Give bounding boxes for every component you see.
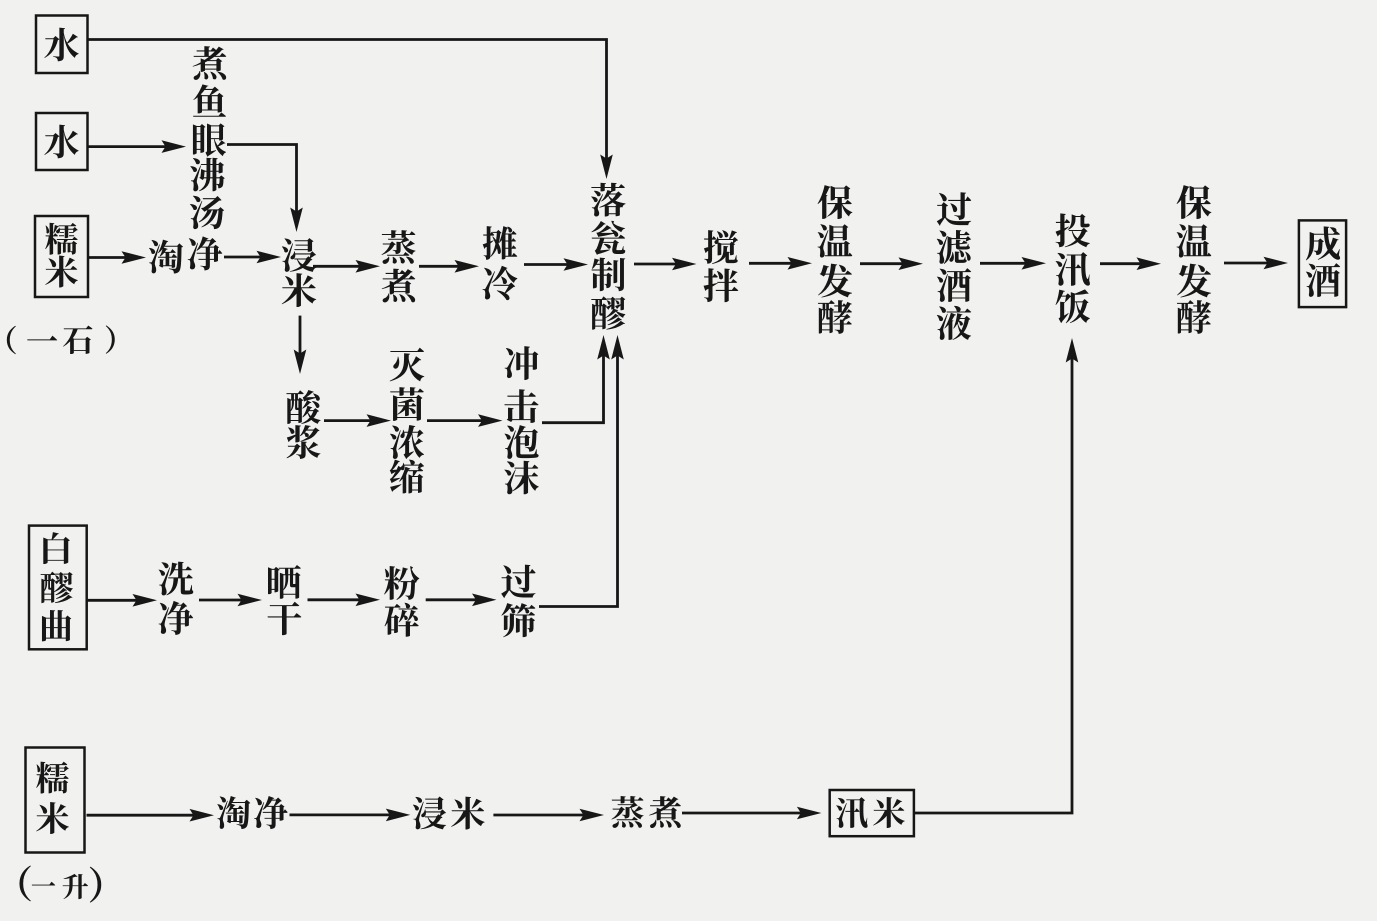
label 过 <box>501 565 535 599</box>
box white-lao-qu <box>29 526 87 650</box>
label 净 <box>188 236 222 270</box>
label 冲 <box>505 346 539 380</box>
label 蒸 <box>611 796 643 828</box>
label 米 <box>282 273 317 307</box>
label 酸 <box>286 390 320 424</box>
label 成 <box>1306 226 1340 260</box>
arrow sterilize-concentrate to strike-foam <box>427 414 503 427</box>
arrow stir to keep-warm-ferment#1 <box>749 257 812 270</box>
arrow rinse-clean to soak-rice (bottom) <box>290 809 411 822</box>
label 饭 <box>1056 289 1090 323</box>
label 晒 <box>268 565 301 599</box>
label 过 <box>937 192 971 226</box>
label 粉 <box>384 566 419 600</box>
label 瓮 <box>591 221 625 255</box>
label 温 <box>1177 224 1212 257</box>
arrow rice#1 to rinse-clean <box>88 251 146 264</box>
label 液 <box>937 306 971 340</box>
label 净 <box>159 601 193 635</box>
box finished-wine <box>1299 220 1346 307</box>
arrow sour-mash to sterilize-concentrate <box>324 414 391 427</box>
label 沸 <box>190 158 225 192</box>
arrow steam to spread-cool <box>419 260 479 273</box>
label ） <box>90 867 101 903</box>
arrow filter-liquor to add-xun-fan <box>980 257 1046 270</box>
label 升 <box>63 874 88 899</box>
arrow rice#2 to rinse-clean (bottom) <box>87 809 215 822</box>
arrow soak-rice down to sour-mash <box>294 316 307 374</box>
label 筛 <box>501 603 535 637</box>
label 浆 <box>287 425 321 459</box>
label 糯 <box>45 223 78 255</box>
label （ <box>19 865 30 901</box>
label 淘 <box>217 796 250 829</box>
label 保 <box>818 185 853 219</box>
label 汛 <box>836 797 868 828</box>
label 缩 <box>390 460 424 494</box>
label 淘 <box>149 240 183 274</box>
box glutinous-rice (one dan) <box>35 216 88 297</box>
arrow wash-clean to sun-dry <box>199 594 262 607</box>
label 汛 <box>1056 252 1090 286</box>
label 一 <box>32 882 55 886</box>
label 摊 <box>483 226 518 260</box>
label 洗 <box>159 562 194 596</box>
label 煮 <box>649 796 681 828</box>
label 碎 <box>385 603 419 637</box>
label 制 <box>591 258 625 292</box>
label 泡 <box>504 425 538 459</box>
box glutinous-rice (one sheng) <box>26 748 85 853</box>
arrow luo-weng-zhi-lao to stir <box>634 258 697 271</box>
label 酒 <box>937 268 971 302</box>
arrow rinse-clean to soak-rice <box>224 251 281 264</box>
label 浸 <box>413 797 446 830</box>
label 冷 <box>483 266 518 300</box>
label 滤 <box>937 230 971 264</box>
label 灭 <box>390 348 425 382</box>
label 投 <box>1056 213 1090 247</box>
arrow keep-warm-ferment#1 to filter-liquor <box>860 257 923 270</box>
arrow steam to xun-mi (bottom) <box>682 807 821 820</box>
label 发 <box>1177 264 1211 298</box>
arrow sun-dry to crush <box>308 594 381 607</box>
label 米 <box>873 797 905 828</box>
label 米 <box>45 256 78 288</box>
label 发 <box>818 264 852 298</box>
wire water#1 to luo-weng-zhi-lao (top route) <box>88 40 613 180</box>
label 酒 <box>1306 263 1340 297</box>
label 浓 <box>390 425 424 459</box>
label 浸 <box>282 238 316 272</box>
arrow soak-rice to steam (bottom) <box>493 809 604 822</box>
label 一 <box>27 336 57 341</box>
label 落 <box>591 183 625 217</box>
label 保 <box>1177 185 1212 219</box>
box water #1 <box>36 16 88 74</box>
label 曲 <box>42 610 71 641</box>
label （ <box>7 326 16 354</box>
label 汤 <box>190 196 224 229</box>
box xun-mi <box>830 790 914 836</box>
label 搅 <box>704 230 738 264</box>
label 醪 <box>591 296 625 329</box>
label 糯 <box>36 762 69 794</box>
label 水 <box>44 28 78 62</box>
arrow spread-cool to luo-weng-zhi-lao <box>524 258 588 271</box>
arrow white-lao-qu to wash-clean <box>87 594 157 607</box>
label 醪 <box>41 572 73 603</box>
wire sieve up to luo-weng-zhi-lao <box>539 335 624 607</box>
label 米 <box>36 802 69 834</box>
label 水 <box>44 125 78 159</box>
label 煮 <box>382 269 416 303</box>
wire fisheye-soup to soak-rice <box>227 145 303 233</box>
label 煮 <box>193 46 227 80</box>
arrow soak-rice to steam <box>313 260 380 273</box>
label 菌 <box>390 387 424 421</box>
wire xun-mi up to add-xun-fan <box>914 338 1078 813</box>
label 鱼 <box>193 84 226 116</box>
arrow keep-warm-ferment#2 to finished-wine <box>1224 257 1288 270</box>
label 干 <box>268 602 302 635</box>
label 酵 <box>818 300 852 334</box>
label ） <box>106 325 115 353</box>
arrow water#2 to boil-fisheye-soup <box>88 140 187 153</box>
label 蒸 <box>382 230 416 264</box>
label 击 <box>504 389 538 423</box>
label 净 <box>254 796 288 829</box>
arrow crush to sieve <box>426 594 497 607</box>
label 米 <box>451 797 485 830</box>
label 酵 <box>1177 300 1211 334</box>
wire strike-foam up to luo-weng-zhi-lao <box>542 335 610 423</box>
label 温 <box>818 224 853 257</box>
label 沫 <box>504 461 539 495</box>
arrow add-xun-fan to keep-warm-ferment#2 <box>1100 257 1161 270</box>
label 白 <box>43 532 70 564</box>
box water #2 <box>36 113 88 170</box>
label 石 <box>63 325 92 354</box>
label 眼 <box>193 123 226 156</box>
label 拌 <box>704 268 739 302</box>
